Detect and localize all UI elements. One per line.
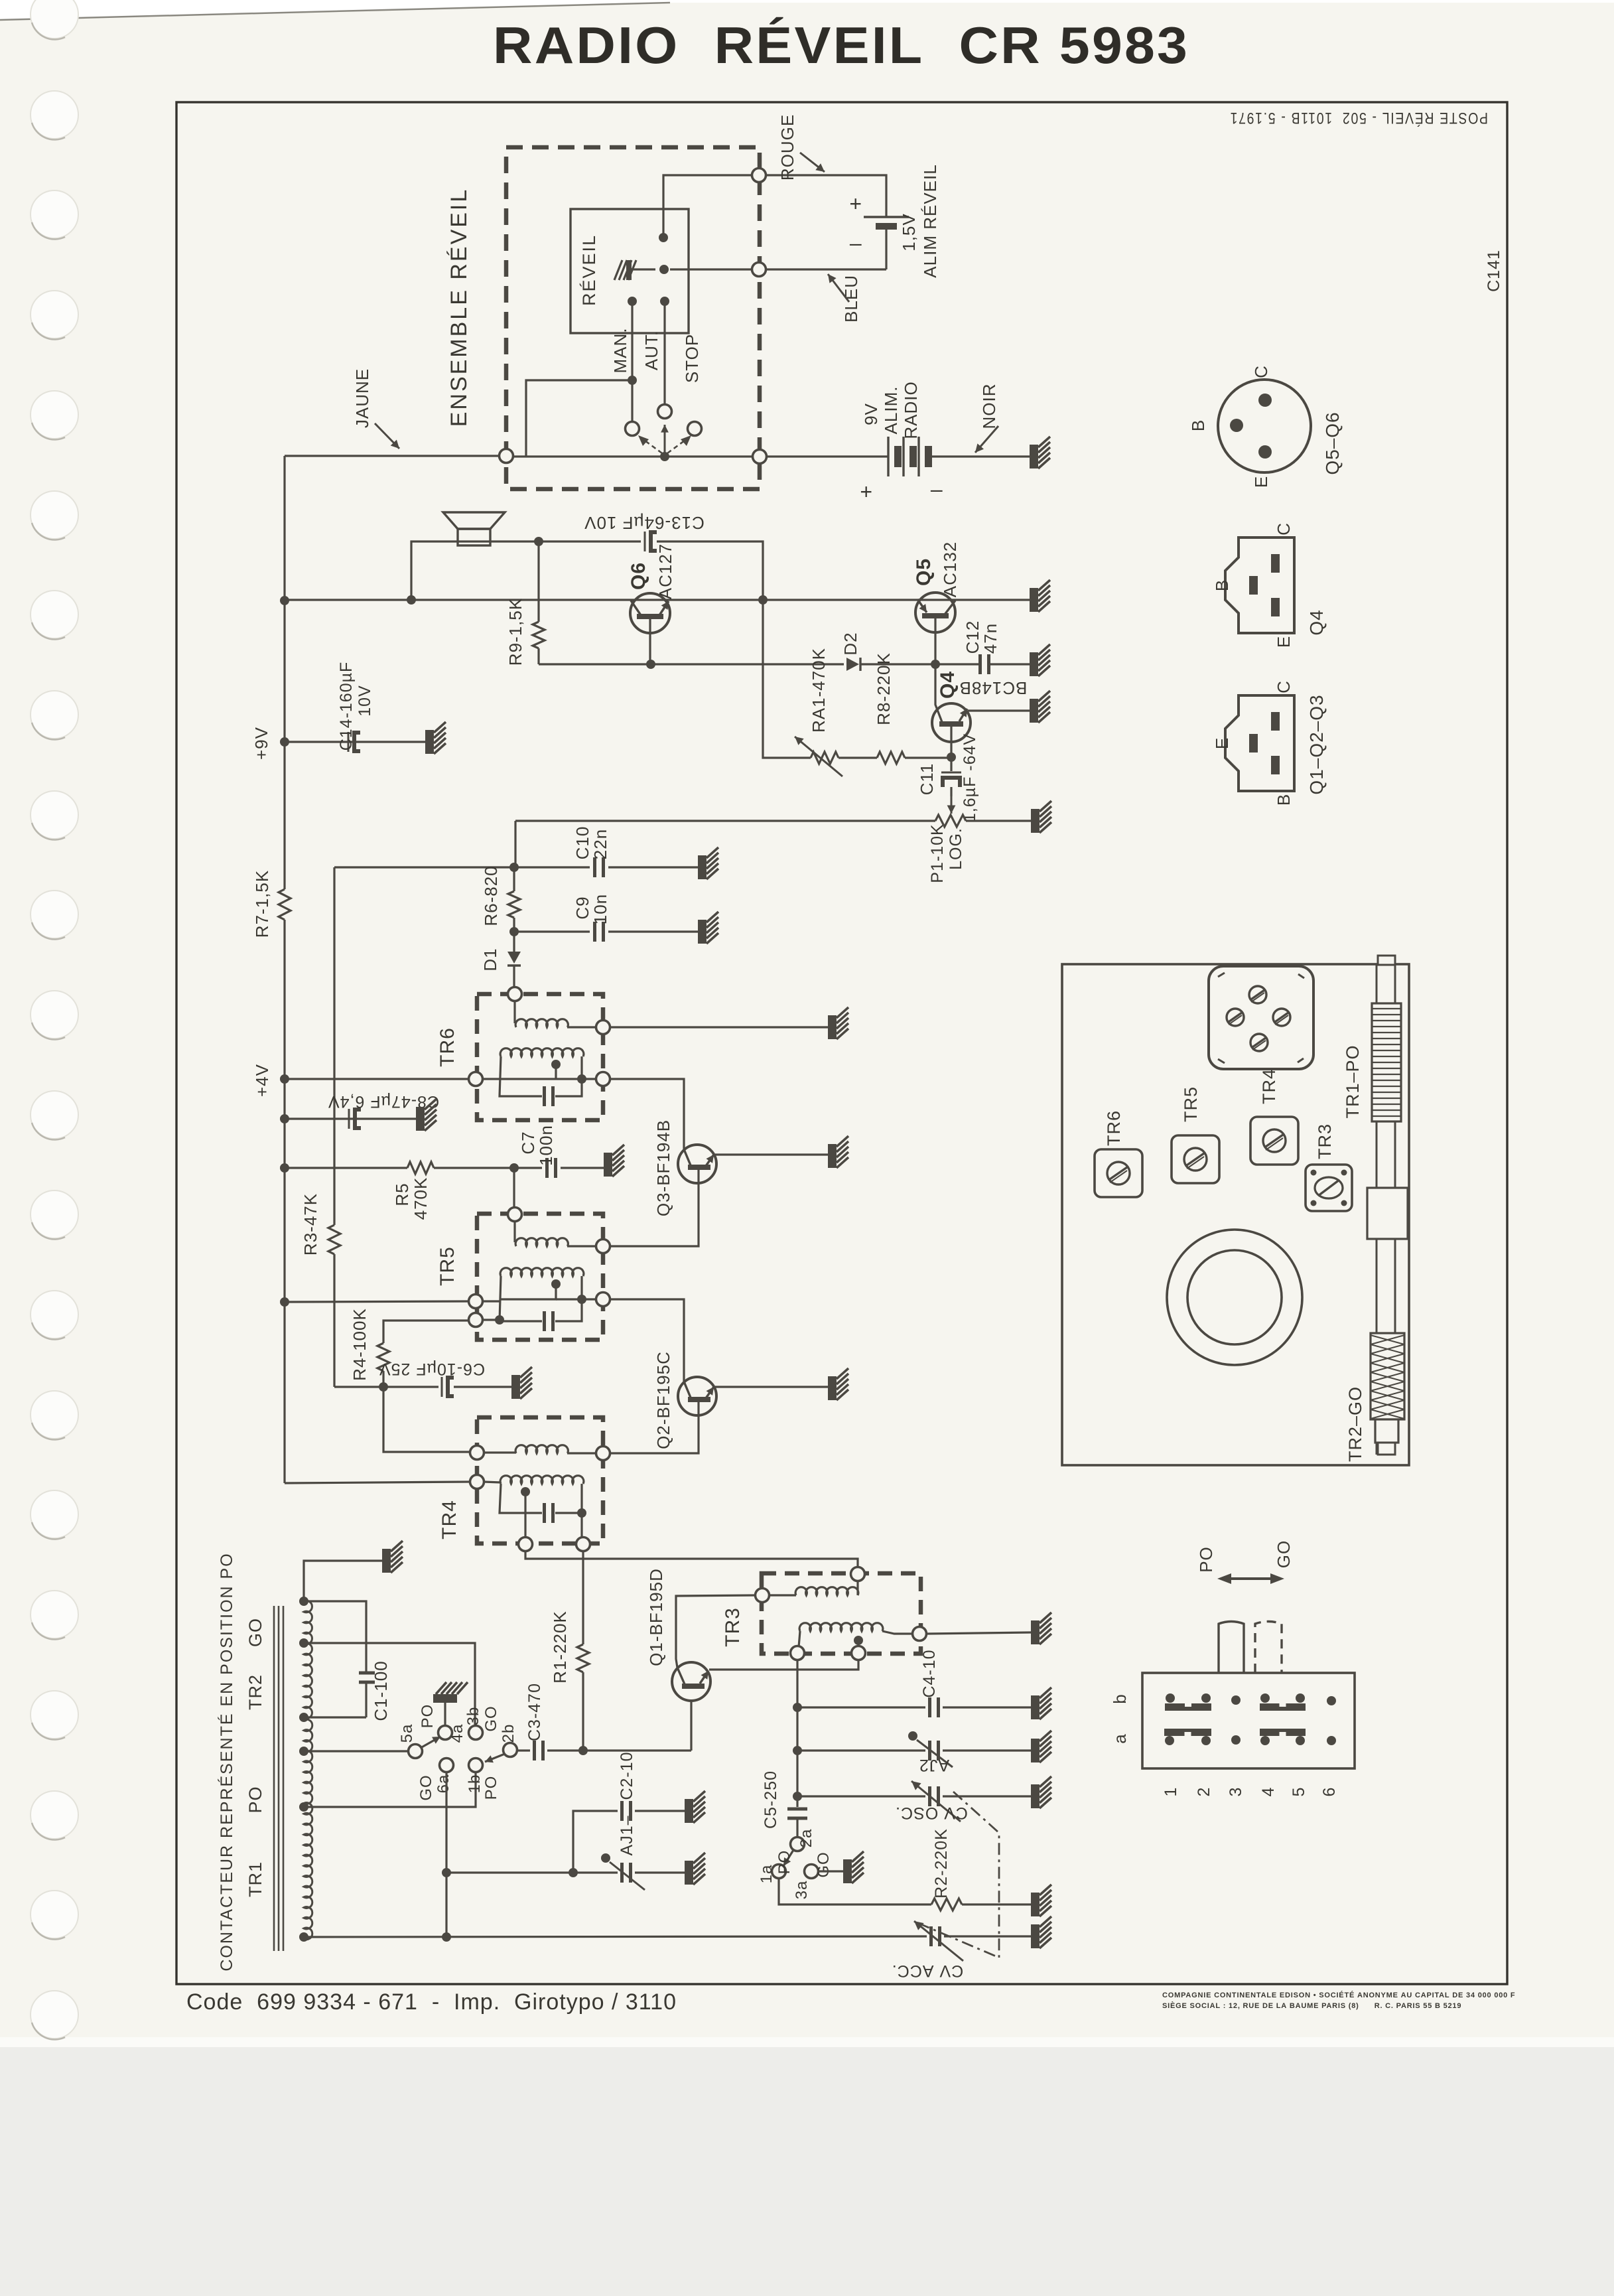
variable capacitor CV OSC. (797, 1795, 925, 1797)
wire: Q1 emitter to TR3 tap (709, 1660, 858, 1670)
shaft middle block (1367, 1188, 1408, 1239)
wire: Q2 collector to TR4 (609, 1402, 699, 1453)
svg-text:C12: C12 (963, 620, 982, 654)
wire: rail feed to TR4 (285, 1482, 471, 1483)
TR4 secondary tuned circuit (470, 1475, 484, 1489)
ground: C9 (698, 912, 718, 944)
svg-text:GO: GO (417, 1774, 435, 1800)
ground: R2 (1031, 1885, 1051, 1916)
ground: AJ2 (1031, 1731, 1051, 1762)
svg-text:Q5: Q5 (913, 558, 935, 586)
svg-text:LOG.: LOG. (947, 827, 965, 870)
wire: detector output to volume pot (514, 821, 516, 867)
svg-text:CONTACTEUR REPRÉSENTÉ EN POSIT: CONTACTEUR REPRÉSENTÉ EN POSITION PO (217, 1552, 236, 1971)
potentiometer P1-10K LOG. (515, 820, 935, 822)
pinout view Q1-Q2-Q3 (lockfit case) (1225, 695, 1294, 791)
svg-text:TR4: TR4 (438, 1500, 460, 1540)
wire: TR6 primary to ground (609, 1026, 828, 1028)
PCB tuning capacitor (1167, 1230, 1302, 1365)
svg-text:NOIR: NOIR (979, 384, 999, 429)
variable resistor RA1-470K (763, 600, 811, 758)
capacitor C10 22n (593, 857, 596, 877)
svg-text:–: – (850, 231, 862, 255)
TR5 primary (508, 1208, 522, 1222)
contact MAN line (631, 301, 633, 423)
IF transformer TR5 (dashed box) (477, 1214, 603, 1340)
svg-text:TR4: TR4 (1259, 1068, 1279, 1104)
svg-text:TR6: TR6 (1104, 1110, 1124, 1146)
svg-text:E: E (1251, 476, 1271, 488)
svg-text:E: E (1274, 636, 1294, 648)
svg-text:1b: 1b (466, 1774, 484, 1794)
svg-text:JAUNE: JAUNE (352, 368, 372, 428)
ground: C8 (416, 1099, 437, 1131)
pinout view Q4 (lockfit case) (1225, 538, 1294, 633)
wire: Q1 base (690, 1701, 692, 1751)
svg-text:6a: 6a (435, 1774, 452, 1794)
svg-text:TR3: TR3 (1315, 1123, 1335, 1159)
shaft bottom blocks (1375, 1419, 1398, 1443)
svg-text:AUT.: AUT. (641, 330, 661, 370)
svg-text:3b: 3b (464, 1707, 482, 1726)
svg-text:C: C (1274, 680, 1294, 693)
PCB trimmer TR6 (1095, 1149, 1142, 1197)
svg-text:Q2-BF195C: Q2-BF195C (653, 1351, 673, 1449)
svg-text:POSTE RÉVEIL - 502 1011B - 5.: POSTE RÉVEIL - 502 1011B - 5.1971 (1229, 109, 1488, 127)
resistor R9-1,5K (537, 541, 539, 622)
svg-text:22n: 22n (590, 829, 610, 859)
capacitor C9 10n (514, 930, 590, 932)
wire: 6a to AJ1 line and ground bus (445, 1771, 447, 1937)
coil TR1-PO on shaft (1372, 1003, 1401, 1121)
svg-text:1: 1 (1162, 1787, 1180, 1797)
svg-text:PO: PO (1196, 1546, 1216, 1573)
TR3 feedback winding (756, 1589, 770, 1603)
svg-text:a: a (1110, 1733, 1130, 1743)
ground: C6 (511, 1367, 532, 1399)
svg-text:–: – (931, 477, 943, 501)
capacitor C11 1,6µF-64V (950, 757, 952, 771)
svg-text:5a: 5a (398, 1724, 416, 1743)
ground: TR3 (1031, 1613, 1051, 1644)
variable capacitor CV ACC. (929, 1926, 933, 1946)
tuning shaft (1376, 964, 1378, 1455)
svg-text:B: B (1188, 419, 1208, 431)
ground: Q3 emitter (828, 1136, 848, 1168)
ground: C4 (1031, 1687, 1051, 1719)
svg-text:R1-220K: R1-220K (550, 1611, 570, 1684)
svg-text:Code 699 9334 - 671 - Imp.: Code 699 9334 - 671 - Imp. Girotypo / 31… (186, 1989, 677, 2015)
capacitor C12 47n (978, 654, 982, 674)
svg-text:Q3-BF194B: Q3-BF194B (653, 1119, 673, 1216)
svg-text:PO: PO (775, 1850, 793, 1875)
svg-text:RÉVEIL: RÉVEIL (579, 234, 599, 306)
wire: AGC/base line through TR6 (469, 1072, 483, 1086)
ground: TR6 primary (828, 1007, 848, 1039)
resistor R2-220K (931, 1899, 962, 1910)
diode D2 (846, 658, 859, 671)
svg-text:2: 2 (1195, 1787, 1213, 1797)
battery 9V ALIM. RADIO (887, 437, 889, 476)
TR4 primary (470, 1446, 484, 1460)
svg-text:R6-820: R6-820 (481, 865, 501, 926)
diode D1 (513, 932, 515, 952)
svg-text:RADIO RÉVEIL CR 5983: RADIO RÉVEIL CR 5983 (493, 16, 1189, 74)
node on dashed edge (rouge) (752, 169, 766, 182)
svg-text:TR1: TR1 (245, 1861, 265, 1897)
wire: R4 to TR4 primary (383, 1387, 470, 1452)
svg-text:C7: C7 (518, 1131, 538, 1154)
switch slider (PO position) (1219, 1622, 1244, 1674)
svg-text:ENSEMBLE RÉVEIL: ENSEMBLE RÉVEIL (446, 188, 472, 427)
svg-text:R4-100K: R4-100K (350, 1308, 370, 1381)
dashed block: ENSEMBLE RÉVEIL (506, 147, 760, 489)
svg-text:ALIM.: ALIM. (881, 386, 901, 435)
pinout view Q5-Q6 (TO-1 case) (1218, 380, 1311, 472)
alarm contact nodes (659, 233, 668, 242)
svg-text:470K: 470K (411, 1177, 431, 1220)
svg-text:R7-1,5K: R7-1,5K (252, 870, 272, 938)
contact 5a + blade (299, 1747, 308, 1756)
svg-text:GO: GO (482, 1705, 500, 1731)
contact 3a GO + ground (805, 1865, 819, 1879)
wire: TR6 secondary to Q3 base (609, 1079, 684, 1149)
svg-text:C10: C10 (572, 826, 592, 860)
ground: radio supply (1030, 437, 1050, 468)
svg-text:B: B (1274, 794, 1294, 806)
svg-text:TR6: TR6 (437, 1027, 458, 1067)
svg-text:9V: 9V (861, 403, 881, 425)
ground: C12 (1030, 644, 1050, 676)
wire: rail below R7 to +4V and TR4 feed (283, 920, 285, 1483)
capacitor C6-10µF 25V (334, 1386, 438, 1388)
resistor R4-100K (383, 1321, 470, 1343)
mechanical coupling (dash-dot) (953, 1792, 999, 1958)
svg-text:Q5–Q6: Q5–Q6 (1322, 411, 1343, 474)
PCB layout board outline (1062, 964, 1409, 1465)
ground: C14 (425, 722, 446, 754)
resistor R7-1,5K (279, 889, 291, 920)
coil TR2-GO on shaft (1371, 1333, 1404, 1419)
capacitor C8-47µF 6,4V (285, 1117, 416, 1119)
ground: CV ACC (1031, 1916, 1051, 1948)
svg-text:AC127: AC127 (655, 543, 675, 600)
transistor Q1-BF195D (672, 1662, 710, 1701)
node +4V (280, 1074, 289, 1084)
svg-text:C5-250: C5-250 (762, 1770, 780, 1829)
capacitor C13-64µF 10V (644, 532, 646, 551)
ground: Q2 emitter (828, 1368, 848, 1400)
resistor R8-220K (839, 756, 877, 758)
svg-text:SIÈGE SOCIAL : 12, RUE DE LA B: SIÈGE SOCIAL : 12, RUE DE LA BAUME PARIS… (1162, 2001, 1461, 2010)
svg-text:Q1-BF195D: Q1-BF195D (646, 1568, 666, 1666)
transistor Q6 AC127 (630, 593, 670, 633)
IF can with screws (1209, 966, 1313, 1069)
schematic border frame (176, 102, 1507, 1984)
wire: TR3 to padder chain (796, 1659, 798, 1796)
svg-text:C1-100: C1-100 (371, 1660, 391, 1721)
svg-text:P1-10K: P1-10K (928, 824, 947, 883)
wire: +9V rail (left vertical) (283, 456, 285, 889)
switch body (1142, 1673, 1355, 1768)
svg-text:COMPAGNIE CONTINENTALE EDISON: COMPAGNIE CONTINENTALE EDISON • SOCIÉTÉ … (1162, 1991, 1515, 1999)
contact AUT line (663, 301, 665, 405)
svg-text:6: 6 (1320, 1787, 1339, 1797)
svg-text:100n: 100n (536, 1125, 556, 1166)
wire: Q3 collector to TR5 (609, 1170, 699, 1246)
switch contacts row a (1164, 1729, 1211, 1736)
svg-text:D2: D2 (841, 632, 860, 655)
svg-text:AJ2: AJ2 (919, 1756, 949, 1774)
svg-text:2a: 2a (797, 1829, 815, 1848)
svg-text:3a: 3a (793, 1881, 811, 1900)
contact 3b GO (469, 1726, 483, 1740)
wire: AGC line with C10 (334, 866, 590, 868)
svg-text:C11: C11 (917, 763, 937, 796)
transistor Q4 BC148B (932, 703, 971, 742)
svg-text:B: B (1212, 579, 1232, 591)
TR6 secondary tuned circuit (500, 1048, 584, 1056)
svg-text:PO: PO (245, 1786, 265, 1813)
wire: TR2 GO tap to contact 3b (299, 1638, 308, 1648)
coil TR2 (GO winding) (304, 1601, 312, 1719)
svg-text:4: 4 (1259, 1787, 1278, 1797)
svg-text:GO: GO (245, 1618, 265, 1647)
capacitor C2-10 (446, 1871, 573, 1873)
svg-text:+: + (849, 192, 862, 216)
wire: Q4 emitter to ground (968, 709, 1030, 711)
wire: Q1 collector to TR3 (676, 1595, 756, 1668)
TR6 primary: terminal + coil (508, 987, 522, 1001)
ground: AJ1 (685, 1853, 705, 1885)
trimmer AJ1 (573, 1871, 618, 1873)
svg-text:C: C (1274, 522, 1294, 536)
resistor R1-220K (582, 1550, 584, 1644)
svg-text:TR3: TR3 (722, 1607, 744, 1647)
node on dashed edge (bleu) (752, 263, 766, 277)
svg-text:MAN.: MAN. (610, 328, 630, 374)
wire: TR5 out to Q2 base (609, 1299, 684, 1382)
capacitor C7 100n (545, 1158, 549, 1178)
svg-text:Q6: Q6 (628, 562, 649, 590)
coil TR1 (PO winding) (304, 1719, 312, 1940)
svg-text:STOP: STOP (682, 334, 702, 383)
alarm contact hatched anchor (614, 260, 655, 280)
wire: second rail (AGC feed R3) (333, 867, 335, 1225)
ground: CV OSC (1031, 1776, 1051, 1808)
blade 2a-1a (783, 1850, 793, 1866)
battery 1,5V ALIM RÉVEIL (864, 216, 909, 218)
transistor Q5 AC132 (915, 593, 955, 632)
svg-text:TR2: TR2 (245, 1674, 265, 1710)
capacitor C14-160µF 10V (285, 741, 425, 743)
contact 1b PO (469, 1758, 483, 1772)
svg-text:C6-10µF 25V: C6-10µF 25V (379, 1360, 485, 1378)
svg-text:R5: R5 (392, 1183, 412, 1206)
transistor Q2-BF195C (678, 1377, 716, 1415)
svg-text:4a: 4a (448, 1724, 466, 1743)
resistor R3-47K (328, 1225, 340, 1254)
svg-text:AC132: AC132 (940, 541, 960, 598)
TR3 main winding (799, 1623, 883, 1631)
TR5 secondary tuned circuit (500, 1268, 584, 1276)
svg-text:10V: 10V (356, 685, 374, 716)
wire: TR2 lower tap (299, 1713, 308, 1722)
svg-text:C14-160µF: C14-160µF (337, 662, 356, 751)
svg-text:E: E (1212, 737, 1232, 749)
wire: TR4 tap to TR3/supply (525, 1550, 858, 1567)
node +9V (280, 737, 289, 747)
svg-text:PO: PO (419, 1704, 437, 1729)
svg-text:10n: 10n (590, 894, 610, 924)
svg-text:R2-220K: R2-220K (932, 1828, 951, 1899)
svg-text:R8-220K: R8-220K (874, 652, 894, 725)
resistor R6-820 (513, 867, 515, 891)
wire: rail feed to TR5 (285, 1301, 470, 1302)
svg-text:CV ACC.: CV ACC. (892, 1962, 963, 1980)
capacitor C3-470 (516, 1749, 530, 1751)
contact 1a PO (772, 1865, 786, 1879)
svg-text:C2-10: C2-10 (618, 1751, 636, 1800)
svg-text:ROUGE: ROUGE (777, 114, 797, 180)
svg-text:Q4: Q4 (937, 671, 959, 699)
svg-text:ALIM RÉVEIL: ALIM RÉVEIL (920, 164, 940, 277)
wire: battery − to ground (NOIR) (932, 455, 1030, 457)
svg-text:b: b (1110, 1693, 1130, 1703)
svg-text:1a: 1a (758, 1865, 775, 1884)
ground: C10 (698, 847, 718, 879)
svg-text:3: 3 (1227, 1787, 1245, 1797)
svg-text:GO: GO (815, 1851, 833, 1877)
wire: TR3 to ground (925, 1632, 1031, 1634)
contact STOP (688, 422, 702, 436)
wire: driver line (R9 / D2 / Q5 base) (539, 663, 844, 665)
PCB trimmer TR5 (1172, 1135, 1219, 1183)
switch wiper (selector) (660, 452, 669, 461)
capacitor C4-10 (797, 1706, 925, 1708)
svg-text:Q1–Q2–Q3: Q1–Q2–Q3 (1306, 694, 1327, 794)
svg-text:AJ1–: AJ1– (618, 1816, 636, 1856)
svg-text:D1: D1 (480, 948, 500, 971)
svg-text:C9: C9 (572, 896, 592, 919)
wire: antenna top tap to ground (299, 1597, 308, 1606)
svg-text:R3-47K: R3-47K (301, 1193, 320, 1256)
svg-text:C4-10: C4-10 (920, 1649, 939, 1697)
svg-text:2b: 2b (500, 1724, 517, 1743)
wire: output rail (Q6/Q5 emitter-collector line) (285, 599, 1030, 601)
ground: output rail (1030, 580, 1050, 612)
svg-text:BLEU: BLEU (841, 275, 861, 323)
PCB trimmer TR3 (1306, 1165, 1352, 1211)
svg-text:C141: C141 (1485, 250, 1503, 292)
svg-text:+: + (860, 480, 872, 504)
svg-text:1,6µF -64V: 1,6µF -64V (961, 733, 979, 822)
svg-text:1,5V: 1,5V (899, 213, 919, 251)
IF transformer TR6 (dashed box) (477, 994, 603, 1120)
ground: Q4 emitter (1030, 691, 1050, 723)
IF transformer TR4 (dashed box) (477, 1417, 603, 1543)
svg-text:C: C (1251, 365, 1271, 378)
oscillator coil TR3 (dashed box) (762, 1573, 921, 1654)
wire: 1a to R2 line (779, 1877, 931, 1904)
svg-text:R9-1,5K: R9-1,5K (505, 598, 525, 666)
ground: C2 (685, 1791, 705, 1823)
wire: réveil contact to battery + (ROUGE) (663, 175, 886, 238)
punch holes (31, 0, 78, 38)
svg-text:PO: PO (482, 1776, 500, 1800)
svg-text:47n: 47n (980, 623, 1000, 654)
wire: battery − to réveil contact (BLEU) (670, 268, 886, 270)
svg-text:CV OSC.: CV OSC. (895, 1804, 968, 1822)
resistor R5 470K (285, 1167, 407, 1169)
svg-text:C3-470: C3-470 (525, 1683, 544, 1741)
svg-text:+9V: +9V (251, 727, 271, 760)
ground: P1 (1031, 801, 1051, 833)
wire: Q3 emitter to ground (715, 1153, 828, 1155)
TR5 left terminals (469, 1295, 483, 1309)
wire: feed to TR5 primary (513, 1168, 515, 1209)
wire: Q4 base (950, 727, 952, 757)
wire: speaker / C13 output line (411, 541, 641, 600)
svg-text:TR5: TR5 (437, 1246, 458, 1286)
contact 4a PO + ground (438, 1726, 452, 1740)
svg-text:BC148B: BC148B (959, 678, 1028, 698)
svg-text:RA1-470K: RA1-470K (809, 648, 829, 733)
wire: common line (JAUNE) through réveil block (285, 455, 500, 457)
transistor Q3-BF194B (678, 1145, 716, 1183)
ground: 3a (843, 1851, 864, 1883)
svg-text:TR5: TR5 (1181, 1086, 1201, 1122)
ferrite core TR1/TR2 (273, 1606, 275, 1951)
svg-text:TR1–PO: TR1–PO (1343, 1044, 1363, 1118)
capacitor C5-250 (796, 1796, 798, 1807)
contact 6a GO (440, 1758, 454, 1772)
svg-text:C13-64µF 10V: C13-64µF 10V (584, 513, 705, 533)
contact 2a (791, 1837, 805, 1851)
ground: antenna (382, 1541, 403, 1573)
wire: TR1 PO tap to contact 1b (299, 1802, 308, 1812)
PCB trimmer TR4 (1250, 1117, 1298, 1165)
svg-text:Q4: Q4 (1306, 609, 1327, 635)
switch contacts row b (1165, 1703, 1211, 1711)
switch slider (GO position, dashed) (1255, 1622, 1282, 1674)
loudspeaker (443, 512, 505, 529)
wire: Q2 emitter to ground (715, 1386, 828, 1388)
ground: C7 (604, 1145, 624, 1177)
alarm clock contact box RÉVEIL (571, 209, 689, 333)
svg-text:+4V: +4V (252, 1064, 272, 1097)
capacitor C1-100 (304, 1601, 366, 1672)
svg-text:5: 5 (1290, 1787, 1308, 1797)
svg-text:TR2–GO: TR2–GO (1345, 1386, 1365, 1462)
wire: ground bus (bottom) (299, 1932, 308, 1942)
trimmer AJ2 (797, 1749, 925, 1751)
svg-text:RADIO: RADIO (901, 381, 921, 439)
svg-text:GO: GO (1274, 1540, 1294, 1568)
wire: MAN bypass to common (526, 380, 632, 457)
contact 2b + blade (504, 1743, 517, 1757)
